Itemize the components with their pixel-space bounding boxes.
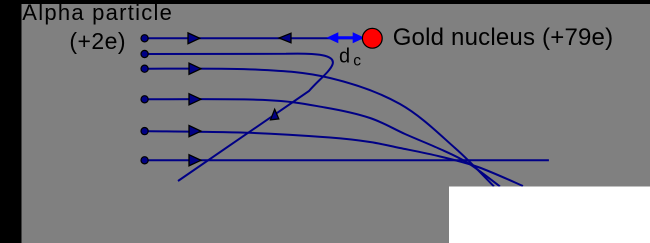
d_c left arrowhead bbox=[327, 32, 339, 43]
white box (bottom-right overlay) bbox=[449, 187, 650, 243]
svg-text:Gold nucleus (+79e): Gold nucleus (+79e) bbox=[393, 24, 614, 51]
direction arrow on trajectory 5 bbox=[189, 126, 201, 137]
d_c right arrowhead bbox=[353, 32, 365, 43]
d_c double-headed arrow shaft bbox=[335, 36, 356, 39]
alpha particle dot 1 bbox=[141, 35, 148, 42]
return arrow on P1 (backscattered) bbox=[279, 33, 291, 43]
alpha particle dot 5 bbox=[141, 128, 148, 135]
trajectory P3 bbox=[145, 69, 494, 187]
direction arrow on trajectory 3 bbox=[189, 63, 201, 74]
alpha particle dot 2 bbox=[141, 50, 148, 57]
svg-text:Alpha particle: Alpha particle bbox=[22, 0, 173, 25]
trajectory P1: head-on path (in/out) bbox=[145, 37, 362, 39]
black top strip bbox=[0, 0, 650, 4]
trajectory P2: hairpin backscatter bbox=[145, 54, 333, 181]
alpha particle dot 3 bbox=[141, 65, 148, 72]
trajectory P4 bbox=[145, 99, 500, 186]
direction arrow on trajectory 6 bbox=[189, 155, 201, 166]
svg-text:(+2e): (+2e) bbox=[69, 28, 126, 54]
arrow on hairpin exit branch bbox=[271, 109, 279, 120]
alpha particle dot 4 bbox=[141, 96, 148, 103]
direction arrow on trajectory 4 bbox=[189, 94, 201, 105]
direction arrow on trajectory 1 bbox=[188, 33, 200, 44]
trajectory P6: nearly undeflected bbox=[145, 159, 549, 161]
alpha particle dot 6 bbox=[141, 157, 148, 164]
trajectory P5 bbox=[145, 131, 523, 186]
svg-text:c: c bbox=[353, 52, 361, 69]
svg-text:d: d bbox=[339, 46, 350, 68]
black left sidebar bbox=[0, 0, 22, 243]
gold nucleus (red circle) bbox=[362, 28, 382, 48]
